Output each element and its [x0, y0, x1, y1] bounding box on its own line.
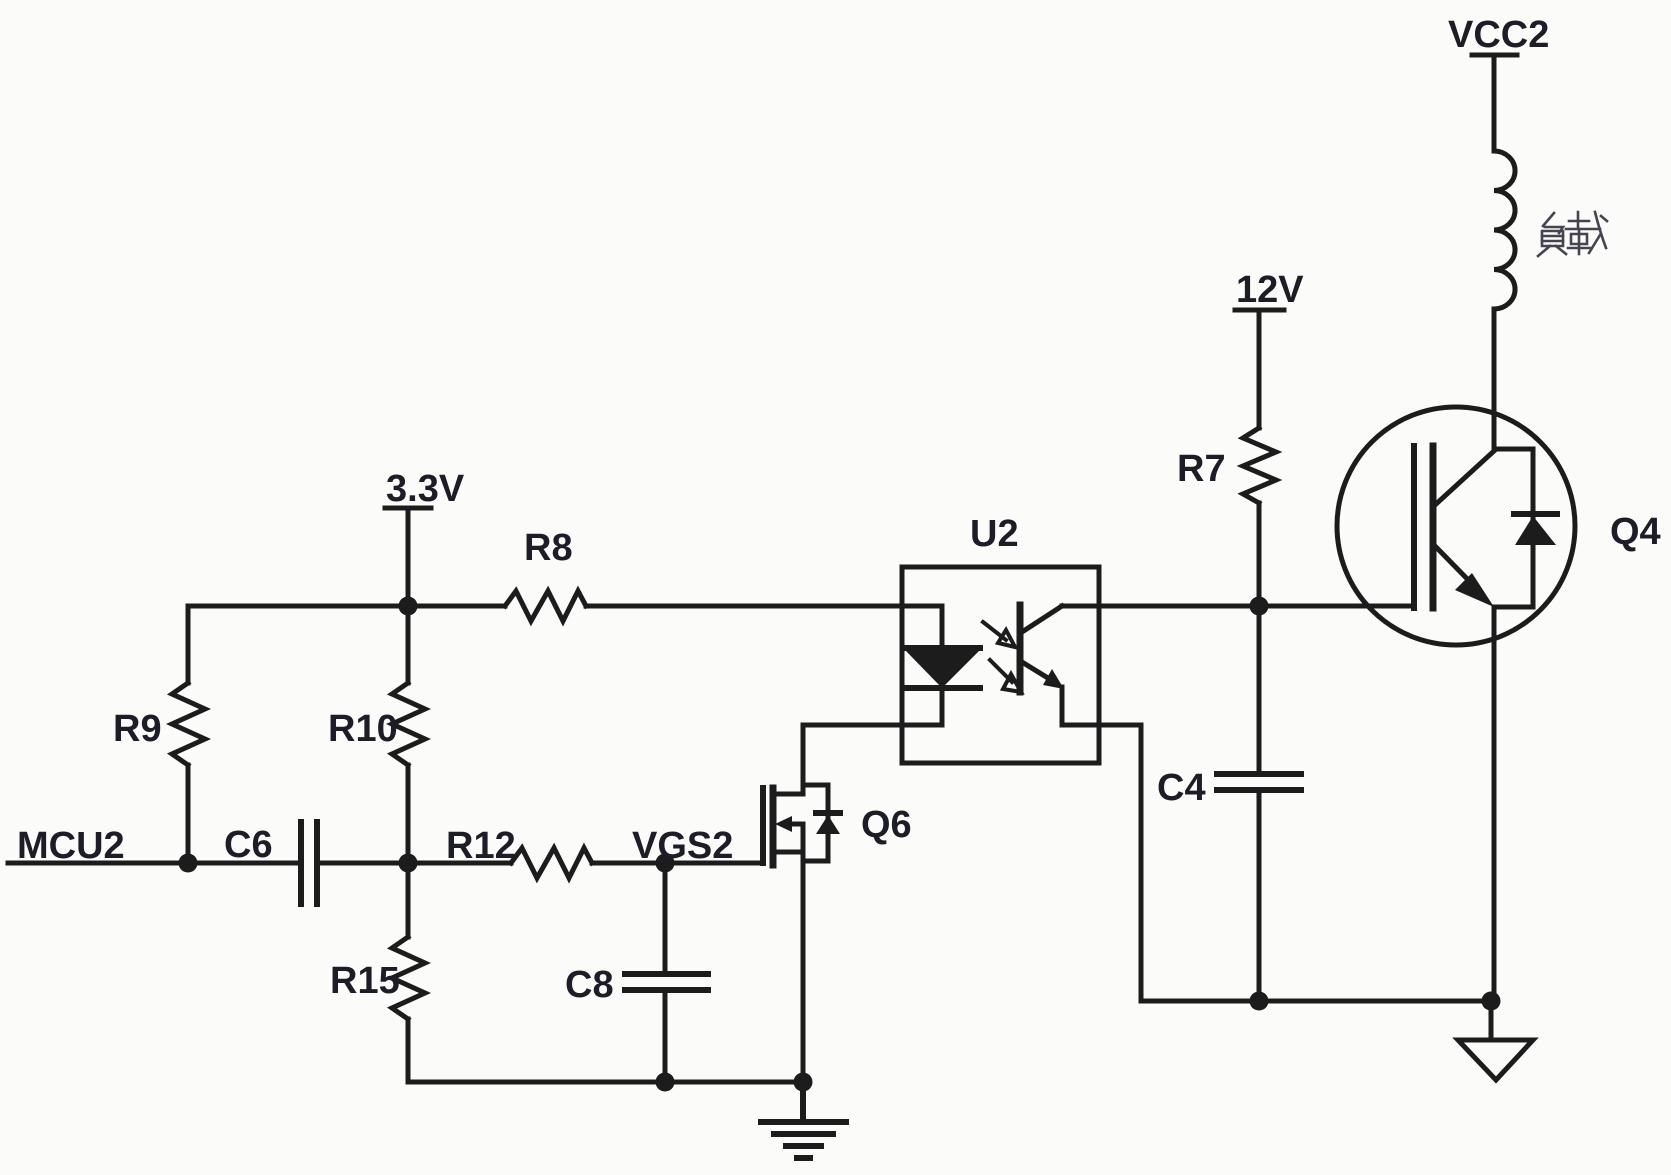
op-to wire U2 left-bottom pin to Q6 drain [803, 688, 942, 725]
svg-text:VGS2: VGS2 [632, 825, 733, 867]
wire MCU2 lead [8, 861, 188, 866]
capacitor C8 [625, 863, 708, 1082]
wire top rail y=606 from R9 corner to U2 LED anode [186, 765, 191, 863]
resistor R10 [392, 606, 425, 863]
svg-text:R10: R10 [328, 708, 398, 750]
node R7/C4/gate junction [1250, 597, 1269, 616]
node Q4 emitter junction [1482, 992, 1501, 1011]
wire U2 emitter down [1139, 725, 1144, 1001]
svg-text:VCC2: VCC2 [1448, 14, 1549, 56]
resistor R9 [172, 683, 205, 765]
U2 LED [905, 606, 980, 688]
svg-text:3.3V: 3.3V [386, 468, 465, 510]
ground (Q6 source) [761, 1082, 846, 1158]
power 12V bar [1235, 308, 1284, 313]
svg-text:C4: C4 [1157, 767, 1206, 809]
wire VGS2 to Q6 gate [665, 861, 763, 866]
svg-text:MCU2: MCU2 [17, 825, 125, 867]
node C6/R10/R12 junction [399, 854, 418, 873]
node C8 ground junction [656, 1073, 675, 1092]
wire VCC2 down [1492, 55, 1497, 151]
svg-text:C6: C6 [224, 824, 273, 866]
wire 3.3V down [406, 508, 411, 606]
U2 phototransistor [1020, 605, 1141, 725]
svg-text:C8: C8 [565, 964, 614, 1006]
transistor Q4 (IGBT with diode) [1337, 407, 1575, 1001]
svg-text:R8: R8 [524, 527, 573, 569]
capacitor C6 [188, 822, 408, 904]
resistor R8 [505, 591, 586, 621]
node 3.3V/R10 junction [399, 597, 418, 616]
svg-text:Q4: Q4 [1610, 511, 1661, 553]
U2 light arrow 1 [983, 622, 1015, 647]
capacitor C4 [1217, 606, 1301, 1001]
wire bottom-left rail [408, 1080, 803, 1085]
node Q6 source ground junction [794, 1073, 813, 1092]
ground (Q4 emitter, triangle) [1458, 1001, 1533, 1080]
svg-text:U2: U2 [970, 513, 1019, 555]
optocoupler U2 box [902, 567, 1099, 763]
svg-text:R15: R15 [330, 960, 400, 1002]
wire U2 collector output to Q4 gate [1062, 604, 1414, 609]
resistor R15 [392, 863, 425, 1082]
label 负载 (load) hand-drawn glyphs [1538, 212, 1607, 256]
wire bottom-right rail [1141, 999, 1491, 1004]
wire inductor to Q4 collector [1492, 309, 1497, 449]
transistor Q6 (NMOS with body diode) [763, 725, 840, 1082]
svg-text:R9: R9 [113, 708, 162, 750]
svg-text:R7: R7 [1177, 448, 1226, 490]
power 3.3V bar [385, 506, 431, 511]
resistor R7 [1243, 310, 1276, 606]
svg-text:Q6: Q6 [861, 804, 912, 846]
power VCC2 bar [1472, 53, 1517, 58]
node VGS2 [656, 854, 675, 873]
svg-text:R12: R12 [446, 825, 516, 867]
node C4 bottom junction [1250, 992, 1269, 1011]
svg-text:12V: 12V [1236, 269, 1304, 311]
wire R9 top [188, 606, 505, 683]
U2 light arrow 2 [990, 660, 1021, 692]
wire R8 to U2 [586, 604, 942, 609]
resistor R12 [408, 848, 665, 878]
node A (MCU2/R9 junction) [179, 854, 198, 873]
inductor 负载 (load) [1494, 151, 1515, 309]
